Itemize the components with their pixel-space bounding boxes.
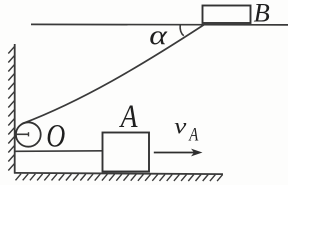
ground line [14, 173, 223, 174]
svg-text:α: α [149, 20, 168, 50]
rope: diagonal segment from vertex to pulley [22, 23, 207, 124]
wall hatching [8, 46, 15, 171]
svg-text:B: B [254, 0, 270, 28]
pulley axle [15, 133, 29, 135]
angle arc at vertex [180, 25, 184, 36]
block B [203, 6, 251, 24]
velocity arrow shaft [154, 152, 197, 154]
svg-text:O: O [46, 119, 65, 154]
wall line [14, 44, 16, 174]
svg-text:A: A [119, 98, 138, 135]
upper surface line [31, 23, 288, 26]
block A [103, 133, 150, 172]
svg-text:v: v [174, 114, 187, 139]
ground hatching [16, 174, 223, 181]
svg-text:A: A [188, 124, 199, 145]
pulley axle tick [28, 132, 30, 136]
rope: horizontal segment from pulley to block A [16, 150, 103, 153]
velocity arrow head [191, 149, 203, 157]
pulley O [16, 122, 41, 146]
